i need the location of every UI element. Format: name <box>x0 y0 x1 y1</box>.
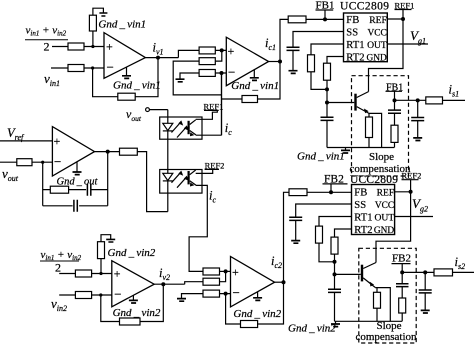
svg-text:ic2: ic2 <box>271 254 282 270</box>
svg-text:FB2: FB2 <box>324 173 344 185</box>
svg-text:UCC2809: UCC2809 <box>350 174 398 186</box>
svg-text:+: + <box>106 40 113 54</box>
svg-text:Gnd _ vin2: Gnd _ vin2 <box>113 307 161 319</box>
svg-text:GND: GND <box>374 226 395 236</box>
svg-text:GND: GND <box>366 53 387 63</box>
svg-text:vout: vout <box>126 107 142 123</box>
svg-text:+: + <box>54 134 61 148</box>
svg-text:RT1: RT1 <box>346 40 364 51</box>
svg-text:Gnd _ vin2: Gnd _ vin2 <box>288 323 336 335</box>
svg-text:ic: ic <box>225 121 232 137</box>
svg-text:REF2: REF2 <box>402 171 422 181</box>
svg-text:ic: ic <box>209 189 216 205</box>
svg-text:Gnd _ vin1: Gnd _ vin1 <box>297 151 345 163</box>
svg-text:−: − <box>228 64 235 79</box>
svg-text:FB2: FB2 <box>392 252 411 264</box>
svg-text:FB: FB <box>346 15 359 26</box>
svg-text:Vg1: Vg1 <box>410 28 426 46</box>
svg-text:REF: REF <box>377 187 395 198</box>
svg-text:iv1: iv1 <box>153 41 164 57</box>
svg-text:OUT: OUT <box>367 40 387 51</box>
svg-text:FB: FB <box>354 188 367 199</box>
svg-text:is2: is2 <box>455 255 466 271</box>
svg-text:−: − <box>107 60 114 75</box>
svg-text:REF1: REF1 <box>204 101 224 111</box>
svg-text:vin1: vin1 <box>44 71 60 88</box>
svg-text:VCC: VCC <box>375 201 394 211</box>
svg-text:FB1: FB1 <box>386 83 403 94</box>
svg-text:RT2: RT2 <box>346 53 364 64</box>
svg-text:compensation: compensation <box>355 331 417 343</box>
svg-text:+: + <box>228 44 235 58</box>
svg-text:Gnd _ vin1: Gnd _ vin1 <box>231 80 279 92</box>
svg-text:SS: SS <box>354 200 366 211</box>
svg-text:REF1: REF1 <box>395 0 415 10</box>
svg-text:UCC2809: UCC2809 <box>340 0 389 12</box>
svg-text:RT1: RT1 <box>354 213 372 224</box>
svg-text:vout: vout <box>2 166 19 183</box>
svg-text:OUT: OUT <box>374 212 394 223</box>
svg-text:−: − <box>114 287 121 302</box>
svg-text:Vg2: Vg2 <box>412 196 428 214</box>
svg-text:Gnd _ vin2: Gnd _ vin2 <box>108 247 156 259</box>
svg-text:iv2: iv2 <box>159 266 170 282</box>
svg-text:Gnd _ out: Gnd _ out <box>57 177 99 188</box>
svg-text:Gnd _ vin1: Gnd _ vin1 <box>98 19 146 31</box>
svg-text:is1: is1 <box>449 83 460 99</box>
svg-text:REF: REF <box>369 15 387 26</box>
svg-text:FB1: FB1 <box>316 0 335 12</box>
svg-text:−: − <box>233 285 240 300</box>
svg-text:SS: SS <box>346 28 358 39</box>
svg-text:ic1: ic1 <box>265 36 276 52</box>
svg-text:VCC: VCC <box>368 28 387 38</box>
svg-text:2: 2 <box>55 261 61 275</box>
svg-text:REF2: REF2 <box>205 160 225 170</box>
svg-text:+: + <box>114 267 121 281</box>
svg-text:RT2: RT2 <box>354 225 372 236</box>
svg-text:Vref: Vref <box>7 126 25 142</box>
svg-text:Slope: Slope <box>369 151 394 163</box>
svg-text:−: − <box>54 154 61 169</box>
svg-text:vin2: vin2 <box>51 296 67 313</box>
svg-text:vin1 + vin2: vin1 + vin2 <box>41 249 82 262</box>
svg-text:+: + <box>232 265 239 279</box>
svg-text:Gnd _ vin2: Gnd _ vin2 <box>233 308 281 320</box>
svg-text:Gnd _ vin1: Gnd _ vin1 <box>113 80 161 92</box>
svg-text:vin1 + vin2: vin1 + vin2 <box>26 25 67 38</box>
svg-text:2: 2 <box>44 40 50 54</box>
